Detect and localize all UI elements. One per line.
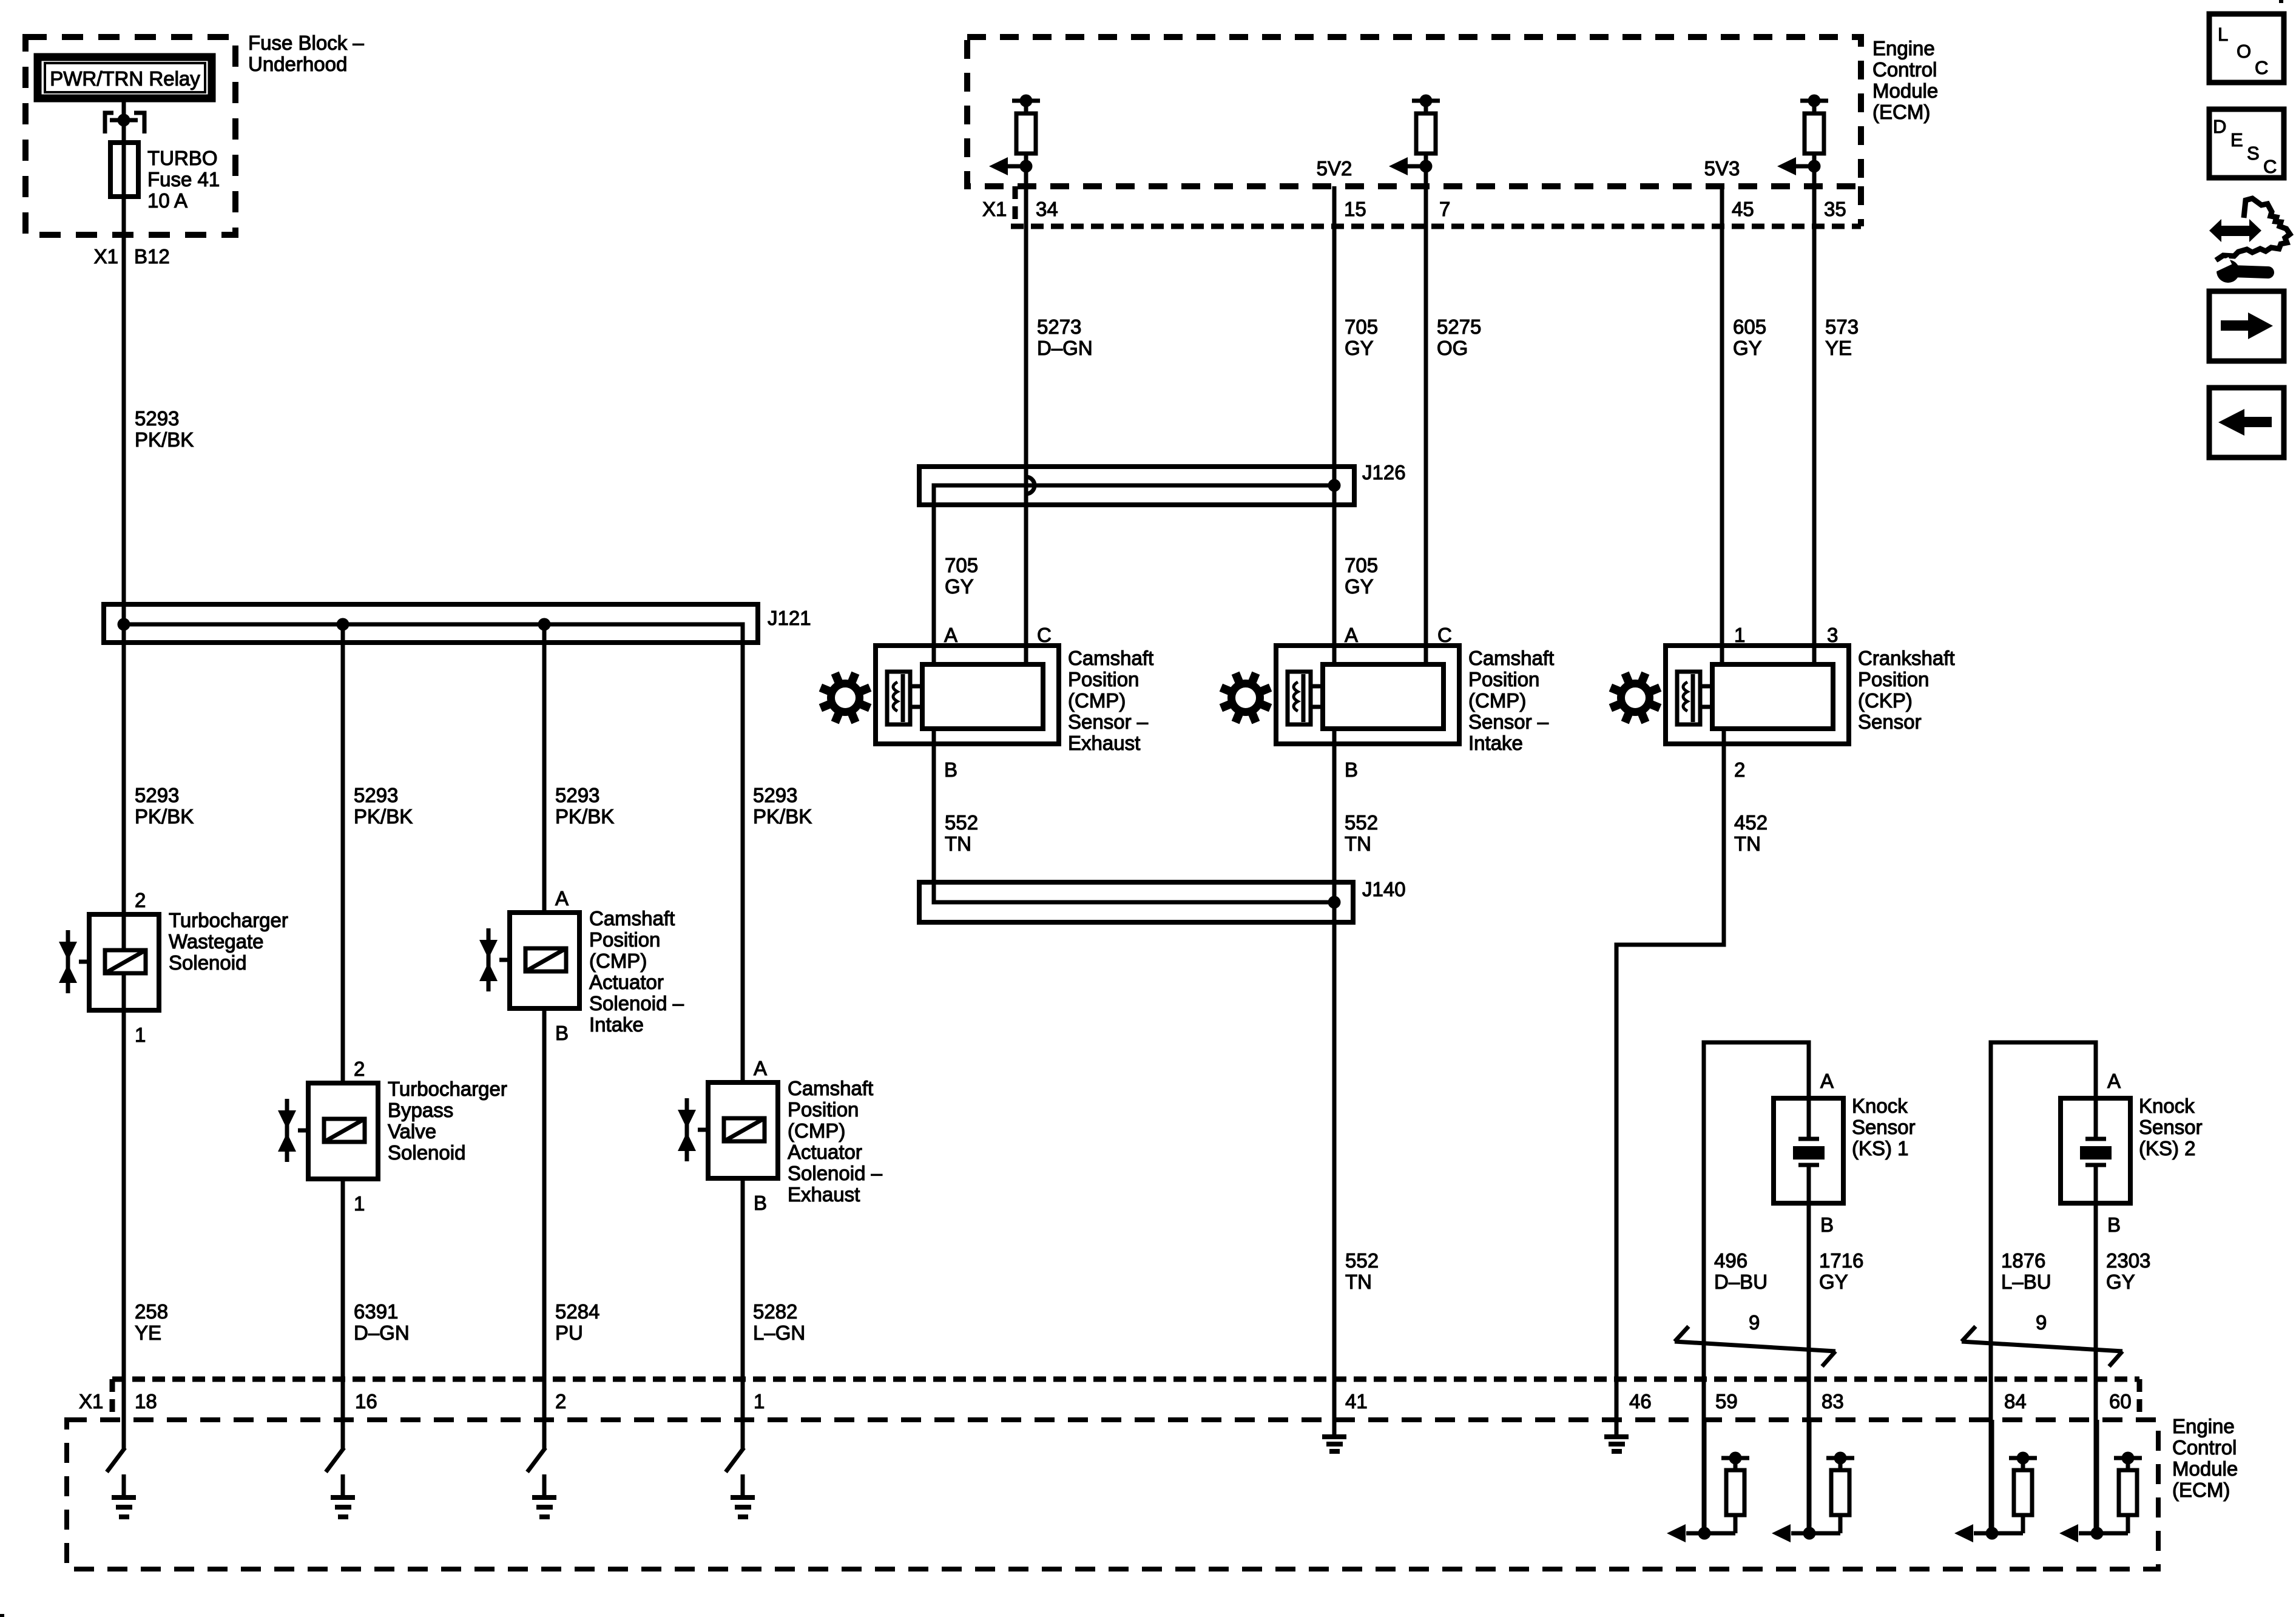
- svg-text:41: 41: [1345, 1390, 1368, 1413]
- svg-text:60: 60: [2109, 1390, 2132, 1413]
- wire 452 TN CKP pin2: [1616, 729, 1724, 1437]
- svg-text:35: 35: [1824, 198, 1846, 220]
- svg-text:1716: 1716: [1819, 1249, 1863, 1272]
- svg-text:Engine: Engine: [2172, 1415, 2235, 1437]
- ECM bottom pin row dotted line: [112, 1377, 2139, 1382]
- svg-text:(CMP): (CMP): [1468, 689, 1526, 712]
- sensor outer box: [1276, 646, 1459, 744]
- svg-text:Position: Position: [589, 928, 660, 951]
- svg-text:B: B: [2107, 1214, 2121, 1236]
- sensor inner box: [1712, 664, 1833, 729]
- svg-text:Position: Position: [1858, 668, 1929, 690]
- svg-text:B: B: [754, 1192, 767, 1214]
- svg-text:5293: 5293: [135, 407, 179, 430]
- back arrow icon: [2209, 388, 2284, 457]
- svg-text:258: 258: [135, 1300, 168, 1323]
- svg-text:Intake: Intake: [589, 1013, 644, 1036]
- ECM internal resistor pin 35: [1800, 99, 1828, 103]
- sensor inner box: [922, 664, 1043, 729]
- sensor outer box: [1666, 646, 1849, 744]
- sensor outer box: [876, 646, 1059, 744]
- svg-text:Bypass: Bypass: [388, 1099, 453, 1121]
- svg-text:5293: 5293: [354, 784, 398, 806]
- svg-text:L–GN: L–GN: [753, 1322, 805, 1344]
- svg-text:OG: OG: [1437, 337, 1468, 359]
- LOC navigation icon: [2209, 14, 2284, 83]
- svg-text:1: 1: [135, 1024, 146, 1046]
- fuse bus junction: [110, 118, 138, 123]
- svg-text:Underhood: Underhood: [248, 53, 347, 75]
- svg-text:496: 496: [1714, 1249, 1747, 1272]
- svg-text:2303: 2303: [2106, 1249, 2150, 1272]
- ECM internal resistor pin 34: [1012, 99, 1040, 103]
- svg-text:2: 2: [555, 1390, 566, 1413]
- svg-text:A: A: [944, 624, 957, 646]
- wire 5293 branch to bypass solenoid: [341, 624, 345, 1083]
- svg-text:L–BU: L–BU: [2001, 1271, 2051, 1293]
- svg-text:PK/BK: PK/BK: [555, 805, 614, 828]
- svg-text:O: O: [2237, 41, 2251, 62]
- svg-text:S: S: [2247, 143, 2260, 164]
- svg-text:GY: GY: [1819, 1271, 1848, 1293]
- svg-text:6391: 6391: [354, 1300, 398, 1323]
- svg-text:5V3: 5V3: [1704, 157, 1740, 180]
- svg-text:5275: 5275: [1437, 316, 1481, 338]
- forward arrow icon: [2209, 291, 2284, 361]
- sensor connector element: [887, 672, 910, 724]
- svg-text:Knock: Knock: [2139, 1095, 2195, 1117]
- wire 605 GY pin 45: [1720, 186, 1724, 664]
- wire 5273 D-GN pin 34: [1024, 166, 1028, 477]
- svg-text:C: C: [1037, 624, 1052, 646]
- svg-text:Sensor: Sensor: [1858, 711, 1922, 733]
- svg-text:Crankshaft: Crankshaft: [1858, 647, 1955, 669]
- svg-text:Sensor –: Sensor –: [1468, 711, 1549, 733]
- wire 5275 OG pin 7: [1424, 166, 1428, 664]
- svg-text:2: 2: [135, 889, 146, 911]
- ground termination pin 1: [726, 1448, 744, 1472]
- svg-text:Module: Module: [1872, 79, 1938, 102]
- svg-text:Camshaft: Camshaft: [1068, 647, 1153, 669]
- svg-text:552: 552: [1345, 1249, 1379, 1272]
- solenoid valve actuator symbol: [285, 1099, 289, 1162]
- wire 5V2 pin 15 705 GY: [1332, 186, 1337, 664]
- svg-text:Control: Control: [2172, 1436, 2237, 1459]
- fuse TURBO Fuse 41 10A symbol: [110, 143, 138, 197]
- svg-text:Sensor –: Sensor –: [1068, 711, 1149, 733]
- svg-text:605: 605: [1733, 316, 1766, 338]
- svg-text:705: 705: [1345, 316, 1378, 338]
- svg-text:Solenoid: Solenoid: [388, 1141, 465, 1164]
- ECM internal resistor pin 7: [1412, 99, 1440, 103]
- wire 5293 PK/BK main vertical: [122, 98, 126, 1450]
- wire 6391 D-GN: [341, 1179, 345, 1450]
- svg-text:Actuator: Actuator: [788, 1141, 862, 1163]
- svg-text:15: 15: [1344, 198, 1366, 220]
- svg-text:(CMP): (CMP): [589, 950, 647, 972]
- svg-text:5282: 5282: [753, 1300, 797, 1323]
- svg-text:B: B: [555, 1022, 569, 1044]
- ECM top dashed box: [967, 37, 1861, 186]
- svg-text:1: 1: [1734, 624, 1745, 646]
- svg-text:84: 84: [2004, 1390, 2027, 1413]
- svg-text:C: C: [1437, 624, 1452, 646]
- svg-text:(CMP): (CMP): [788, 1119, 845, 1142]
- svg-text:YE: YE: [1825, 337, 1852, 359]
- solenoid coil with diagonal: [724, 1118, 765, 1141]
- twisted pair symbol KS2: [1962, 1342, 2122, 1351]
- ECM pulldown resistor pin 83: [1808, 1420, 1812, 1536]
- ECM pulldown resistor pin 59: [1703, 1420, 1707, 1536]
- svg-text:TN: TN: [1345, 1271, 1372, 1293]
- sensor inner box: [1323, 664, 1443, 729]
- svg-text:D–GN: D–GN: [1037, 337, 1093, 359]
- svg-text:B: B: [1345, 758, 1358, 781]
- sensor driven gear icon: [1609, 672, 1662, 724]
- svg-text:(CMP): (CMP): [1068, 689, 1126, 712]
- svg-text:Solenoid –: Solenoid –: [589, 992, 684, 1014]
- solenoid coil with diagonal: [525, 948, 566, 971]
- ECM pulldown resistor pin 84: [1990, 1420, 1994, 1536]
- splice pack J126 box: [919, 467, 1354, 505]
- svg-text:5273: 5273: [1037, 316, 1081, 338]
- component locator hand tool icon: [2216, 198, 2290, 260]
- solenoid valve actuator symbol: [685, 1098, 689, 1161]
- svg-text:PWR/TRN Relay: PWR/TRN Relay: [50, 67, 200, 90]
- svg-text:Wastegate: Wastegate: [169, 930, 264, 953]
- svg-text:GY: GY: [1345, 575, 1374, 598]
- junction dot J121 branch 16: [337, 618, 349, 631]
- svg-text:GY: GY: [945, 575, 974, 598]
- svg-text:Exhaust: Exhaust: [788, 1183, 860, 1206]
- svg-text:E: E: [2230, 129, 2243, 150]
- svg-text:B12: B12: [134, 245, 170, 268]
- svg-text:Solenoid –: Solenoid –: [788, 1162, 883, 1184]
- svg-text:Module: Module: [2172, 1457, 2238, 1480]
- svg-text:3: 3: [1827, 624, 1838, 646]
- svg-text:GY: GY: [2106, 1271, 2135, 1293]
- svg-text:5293: 5293: [135, 784, 179, 806]
- solenoid body box: [510, 913, 579, 1008]
- svg-text:B: B: [1820, 1214, 1834, 1236]
- knock sensor 1 piezo element: [1807, 1098, 1811, 1139]
- wire 5273 hop over J126 bus: [1026, 477, 1035, 494]
- svg-text:D: D: [2213, 116, 2226, 137]
- splice J126 bus: [934, 485, 1334, 664]
- wire 552 TN exhaust B: [934, 729, 1334, 902]
- svg-text:Actuator: Actuator: [589, 971, 664, 993]
- knock sensor 1 wiring jog: [1704, 1042, 1809, 1536]
- sensor connector element: [1288, 672, 1311, 724]
- svg-text:Camshaft: Camshaft: [788, 1077, 873, 1099]
- svg-text:TN: TN: [1345, 832, 1371, 855]
- svg-text:TURBO: TURBO: [147, 147, 218, 169]
- svg-text:Sensor: Sensor: [1852, 1116, 1916, 1138]
- svg-text:(KS) 1: (KS) 1: [1852, 1137, 1909, 1160]
- svg-text:J126: J126: [1362, 461, 1406, 484]
- svg-text:10 A: 10 A: [147, 189, 187, 212]
- svg-text:18: 18: [135, 1390, 157, 1413]
- solenoid coil with diagonal: [105, 950, 146, 973]
- ground termination pin 18: [107, 1448, 125, 1472]
- svg-text:B: B: [944, 758, 957, 781]
- wire 552 TN intake B: [1332, 729, 1337, 1437]
- fuse block underhood dashed box: [25, 37, 235, 235]
- junction dot J121 branch 2: [538, 618, 551, 631]
- svg-text:X1: X1: [94, 245, 118, 268]
- svg-text:YE: YE: [135, 1322, 161, 1344]
- DESC navigation icon: [2209, 109, 2284, 178]
- svg-text:83: 83: [1822, 1390, 1844, 1413]
- svg-text:Position: Position: [1068, 668, 1139, 690]
- sensor driven gear icon: [819, 672, 872, 724]
- svg-text:A: A: [2107, 1070, 2121, 1092]
- svg-text:X1: X1: [79, 1390, 103, 1413]
- ECM top pin row dotted line: [1011, 224, 1861, 229]
- svg-text:Camshaft: Camshaft: [1468, 647, 1554, 669]
- svg-text:A: A: [754, 1057, 767, 1079]
- svg-text:Knock: Knock: [1852, 1095, 1908, 1117]
- svg-text:34: 34: [1036, 198, 1058, 220]
- ground at ECM pin 46: [1604, 1434, 1629, 1439]
- svg-text:PK/BK: PK/BK: [135, 805, 194, 828]
- junction dot J126 pin15 wire: [1328, 479, 1341, 492]
- solenoid coil with diagonal: [324, 1119, 365, 1142]
- svg-text:A: A: [555, 887, 569, 910]
- svg-text:Turbocharger: Turbocharger: [169, 909, 288, 931]
- svg-text:Fuse Block –: Fuse Block –: [248, 32, 364, 54]
- svg-text:A: A: [1345, 624, 1358, 646]
- svg-text:Position: Position: [1468, 668, 1539, 690]
- svg-text:9: 9: [2036, 1311, 2047, 1334]
- ECM top pin row X1 separator: [1013, 186, 1018, 226]
- wire 5284 PU: [542, 1008, 547, 1450]
- ECM bottom pin row right separator: [2137, 1379, 2142, 1420]
- svg-text:46: 46: [1629, 1390, 1652, 1413]
- solenoid body box: [708, 1082, 778, 1178]
- svg-text:9: 9: [1749, 1311, 1760, 1334]
- svg-text:5284: 5284: [555, 1300, 599, 1323]
- svg-text:TN: TN: [945, 832, 971, 855]
- svg-text:2: 2: [1734, 758, 1745, 781]
- svg-text:X1: X1: [982, 198, 1007, 220]
- svg-text:Fuse 41: Fuse 41: [147, 168, 220, 191]
- svg-text:Camshaft: Camshaft: [589, 907, 675, 930]
- sensor driven gear icon: [1220, 672, 1272, 724]
- svg-text:(ECM): (ECM): [1872, 101, 1930, 123]
- svg-text:PU: PU: [555, 1322, 583, 1344]
- svg-text:(CKP): (CKP): [1858, 689, 1913, 712]
- ground termination pin 2: [527, 1448, 545, 1472]
- fuse holder clips: [105, 113, 113, 133]
- svg-text:Valve: Valve: [388, 1120, 436, 1143]
- ECM top pin row right edge: [1858, 186, 1864, 226]
- PWR/TRN relay box: [38, 57, 212, 98]
- svg-text:J140: J140: [1362, 878, 1406, 900]
- junction dot J140: [1328, 896, 1341, 909]
- svg-text:45: 45: [1732, 198, 1754, 220]
- svg-text:PK/BK: PK/BK: [135, 428, 194, 451]
- svg-text:5V2: 5V2: [1317, 157, 1352, 180]
- sensor connector element: [1677, 672, 1700, 724]
- splice pack J140 box: [919, 882, 1353, 922]
- solenoid body box: [308, 1083, 378, 1179]
- splice J121 bus: [124, 624, 743, 1082]
- knock sensor 2 piezo element: [2094, 1098, 2098, 1139]
- svg-text:L: L: [2218, 24, 2228, 45]
- svg-text:Turbocharger: Turbocharger: [388, 1078, 507, 1100]
- solenoid body box: [89, 914, 159, 1010]
- svg-text:TN: TN: [1734, 832, 1761, 855]
- svg-text:C: C: [2263, 156, 2277, 177]
- svg-text:GY: GY: [1345, 337, 1374, 359]
- svg-text:J121: J121: [768, 607, 811, 629]
- svg-text:5293: 5293: [555, 784, 599, 806]
- svg-text:Control: Control: [1872, 58, 1937, 81]
- ECM bottom pin row X1 separator: [110, 1379, 115, 1420]
- svg-text:59: 59: [1715, 1390, 1738, 1413]
- svg-text:D–BU: D–BU: [1714, 1271, 1768, 1293]
- page corner mark top right: [2279, 0, 2283, 3]
- wire 5282 L-GN: [741, 1178, 745, 1450]
- svg-text:Intake: Intake: [1468, 732, 1523, 754]
- svg-text:16: 16: [355, 1390, 377, 1413]
- ECM bottom dashed box: [67, 1420, 2158, 1569]
- svg-text:7: 7: [1439, 198, 1450, 220]
- svg-text:PK/BK: PK/BK: [753, 805, 812, 828]
- solenoid valve actuator symbol: [487, 928, 491, 991]
- svg-text:5293: 5293: [753, 784, 797, 806]
- svg-text:705: 705: [1345, 554, 1378, 576]
- wrench icon: [2217, 260, 2240, 283]
- svg-text:PK/BK: PK/BK: [354, 805, 413, 828]
- svg-text:2: 2: [354, 1058, 365, 1080]
- svg-text:1876: 1876: [2001, 1249, 2045, 1272]
- knock sensor 1 box: [1774, 1098, 1843, 1203]
- svg-text:GY: GY: [1733, 337, 1762, 359]
- svg-text:Exhaust: Exhaust: [1068, 732, 1140, 754]
- twisted pair symbol KS1: [1675, 1342, 1835, 1351]
- svg-text:A: A: [1820, 1070, 1834, 1092]
- knock sensor 2 wiring jog: [1991, 1042, 2096, 1536]
- ECM pulldown resistor pin 60: [2095, 1420, 2099, 1536]
- svg-text:C: C: [2255, 57, 2268, 78]
- svg-text:1: 1: [354, 1192, 365, 1215]
- knock sensor 2 box: [2061, 1098, 2130, 1203]
- svg-text:1: 1: [754, 1390, 765, 1413]
- wire 573 YE pin 35: [1812, 166, 1817, 664]
- svg-text:Engine: Engine: [1872, 37, 1935, 59]
- ground at ECM pin 41: [1322, 1434, 1346, 1439]
- svg-text:(KS) 2: (KS) 2: [2139, 1137, 2196, 1160]
- svg-text:Sensor: Sensor: [2139, 1116, 2203, 1138]
- wire 258 YE: [122, 1010, 126, 1450]
- page corner mark bottom left: [0, 1614, 4, 1617]
- svg-text:Position: Position: [788, 1098, 859, 1121]
- svg-text:D–GN: D–GN: [354, 1322, 410, 1344]
- junction dot J121 at main wire: [118, 618, 130, 631]
- svg-text:552: 552: [945, 811, 978, 834]
- wire 5293 branch to CMP actuator intake: [542, 624, 547, 913]
- solenoid valve actuator symbol: [66, 930, 70, 993]
- svg-text:552: 552: [1345, 811, 1378, 834]
- splice pack J121 box: [104, 604, 758, 643]
- svg-text:573: 573: [1825, 316, 1859, 338]
- svg-text:452: 452: [1734, 811, 1768, 834]
- svg-text:705: 705: [945, 554, 978, 576]
- svg-text:Solenoid: Solenoid: [169, 951, 246, 974]
- ground termination pin 16: [326, 1448, 344, 1472]
- svg-text:(ECM): (ECM): [2172, 1479, 2230, 1501]
